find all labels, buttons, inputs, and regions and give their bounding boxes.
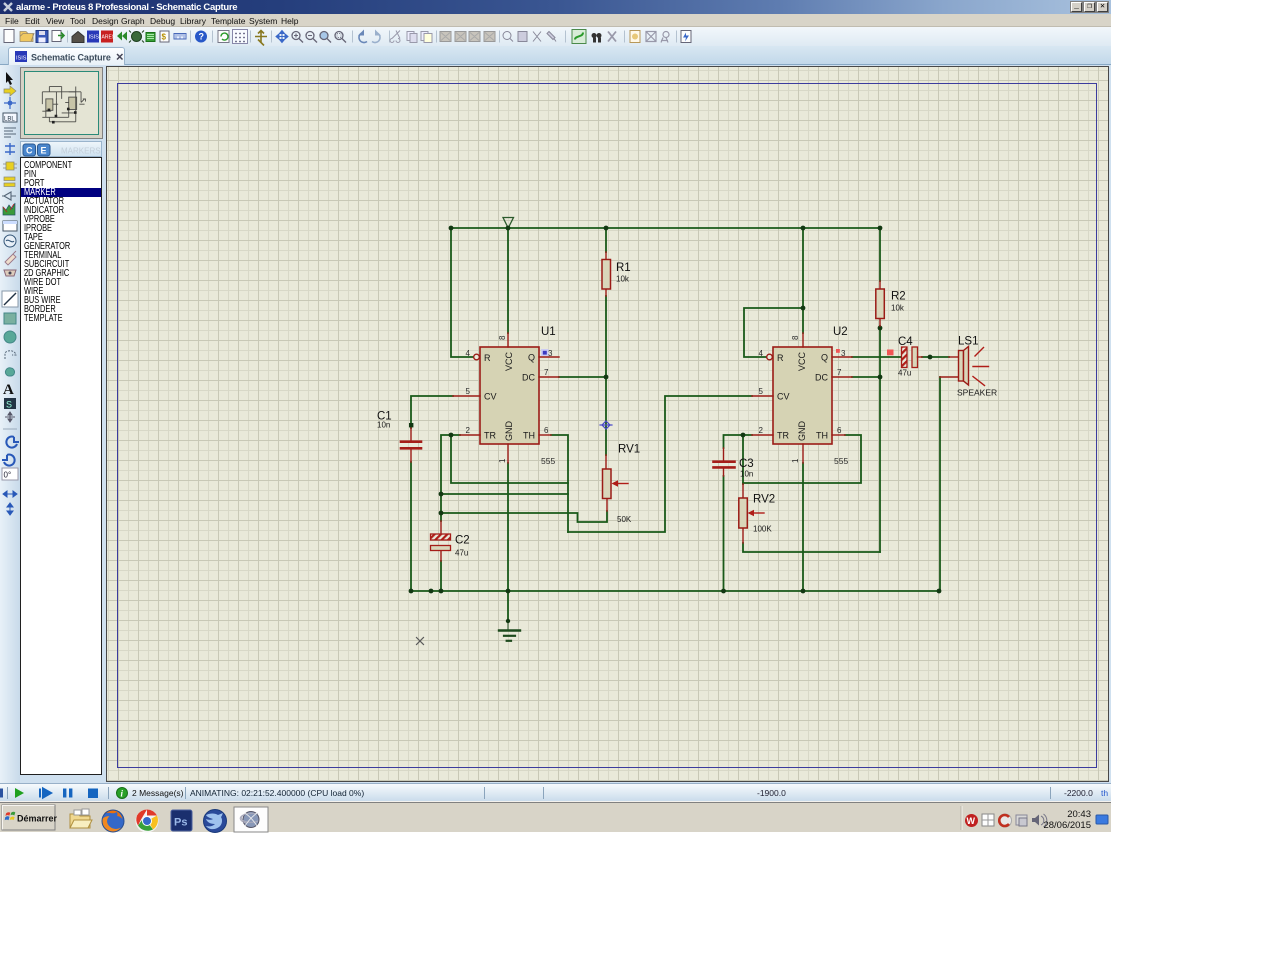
node VCC rail junctions (449, 226, 883, 231)
svg-text:DC: DC (815, 373, 828, 383)
wire U2 TH pin6 loop to RV2 top (743, 435, 861, 483)
svg-text:Q: Q (528, 353, 535, 363)
wire rail to U1 pin4 R (451, 228, 473, 357)
node VCC2 (801, 306, 806, 311)
svg-text:TR: TR (484, 431, 496, 441)
potentiometer RV2 (739, 484, 775, 543)
wire LS1 return to ground rail (939, 377, 941, 591)
svg-text:TH: TH (523, 431, 535, 441)
svg-text:C3: C3 (739, 458, 754, 470)
op-amp U2 (555 timer) (752, 326, 894, 466)
wire U1 DC pin7 to node DC1 (559, 376, 606, 378)
svg-text:R1: R1 (616, 262, 631, 274)
marker logic-state red square pin3 U2 (836, 349, 840, 353)
svg-text:28/06/2015: 28/06/2015 (1043, 820, 1091, 831)
svg-text:10k: 10k (616, 275, 630, 284)
capacitor C2 (polarized) (431, 521, 470, 561)
node DC1 (604, 375, 609, 380)
svg-text:CV: CV (777, 392, 790, 402)
capacitor C1 (377, 411, 421, 463)
svg-text:1: 1 (791, 458, 800, 463)
svg-text:6: 6 (837, 426, 842, 435)
marker logic-state red square wire Q2 (887, 350, 894, 356)
svg-text:2: 2 (759, 426, 764, 435)
svg-text:R: R (777, 353, 784, 363)
svg-text:8: 8 (498, 335, 507, 340)
node TR2 (741, 433, 746, 438)
sheet border (118, 84, 1097, 768)
wire U1 TR pin2 left and down to C2 (441, 435, 460, 521)
capacitor C3 (714, 448, 754, 479)
svg-text:100K: 100K (753, 525, 772, 534)
marker cross (417, 638, 424, 645)
svg-text:20:43: 20:43 (1067, 809, 1091, 820)
wire C2 bottom to ground rail (440, 561, 442, 591)
wire node DC1 down to RV1 (605, 377, 607, 455)
svg-text:TR: TR (777, 431, 789, 441)
wire C4 to LS1 (922, 356, 949, 358)
wire R1 bottom to node DC1 (605, 296, 607, 377)
svg-text:7: 7 (837, 368, 842, 377)
node R2 bottom (878, 326, 883, 331)
resistor R2 (876, 281, 906, 326)
wire rail to U2 VCC and pin4 R (802, 228, 804, 333)
power terminal (503, 218, 514, 229)
svg-text:RV2: RV2 (753, 494, 775, 506)
svg-text:GND: GND (797, 421, 807, 442)
svg-text:GND: GND (504, 421, 514, 442)
node C1 top (409, 423, 413, 427)
svg-text:2 Message(s): 2 Message(s) (132, 788, 184, 798)
svg-text:3: 3 (548, 349, 553, 358)
svg-text:W: W (967, 816, 976, 826)
wire U2 DC pin7 to node DC2 (852, 376, 880, 378)
wire ground rail (411, 590, 939, 592)
svg-text:10n: 10n (740, 470, 753, 479)
svg-text:47u: 47u (898, 369, 911, 378)
wire C3 bottom to ground rail (723, 476, 725, 591)
svg-text:th: th (1101, 788, 1108, 798)
wire U2 GND pin1 to ground rail (802, 463, 804, 591)
wire power terminal to U1 VCC (507, 229, 509, 333)
svg-text:ANIMATING: 02:21:52.400000 (CP: ANIMATING: 02:21:52.400000 (CPU load 0%) (190, 788, 364, 798)
node C (439, 511, 444, 516)
quick launch icons (70, 809, 92, 828)
node DC2 (878, 375, 883, 380)
wire VCC rail (451, 227, 880, 229)
svg-text:-2200.0: -2200.0 (1064, 788, 1093, 798)
wire node C to RV1 bottom (441, 511, 607, 522)
svg-text:R2: R2 (891, 291, 906, 303)
wire U2 TR pin2 to C3 (724, 435, 753, 448)
wire ground rail to ground symbol (507, 591, 509, 620)
wire R2 bottom down to RV2 bottom node (879, 326, 881, 552)
svg-text:1: 1 (498, 458, 507, 463)
node B (439, 492, 444, 497)
speaker LS1 (940, 336, 997, 398)
svg-text:Q: Q (821, 353, 828, 363)
capacitor C4 (polarized) (898, 336, 922, 378)
svg-text:Ps: Ps (174, 817, 187, 829)
svg-text:8: 8 (791, 335, 800, 340)
wire node TR2 down to RV2 top (742, 435, 744, 484)
svg-text:TH: TH (816, 431, 828, 441)
svg-text:10n: 10n (377, 421, 390, 430)
wire U1 TH pin6 down (551, 435, 568, 532)
potentiometer RV1 (603, 444, 641, 525)
marker logic-state blue square pin3 U1 (541, 349, 549, 356)
Start button (2, 805, 55, 830)
wire node B across (441, 493, 568, 495)
svg-text:10k: 10k (891, 304, 905, 313)
svg-text:C4: C4 (898, 336, 913, 348)
node ground stem (506, 619, 510, 623)
svg-text:555: 555 (541, 456, 555, 466)
marker origin blue diamond (600, 421, 612, 429)
wire C1 bottom to ground rail (410, 462, 412, 591)
node TR1 (449, 433, 454, 438)
wire TR1 loop down (451, 435, 568, 483)
wire U1 GND pin1 to ground rail (507, 463, 509, 591)
svg-text:-1900.0: -1900.0 (757, 788, 786, 798)
svg-text:U2: U2 (833, 326, 848, 338)
svg-text:R: R (484, 353, 491, 363)
wire U2 Q pin3 to C4 (852, 356, 902, 358)
svg-text:DC: DC (522, 373, 535, 383)
wire U1 TH node to U2 CV pin5 (568, 396, 752, 532)
svg-text:50K: 50K (617, 515, 632, 524)
wire U1 CV pin5 to C1 (411, 396, 453, 428)
svg-text:3: 3 (841, 349, 846, 358)
svg-text:VCC: VCC (504, 351, 514, 371)
svg-text:LS1: LS1 (958, 336, 978, 348)
node C4-LS1 (928, 355, 933, 360)
ground symbol (499, 621, 520, 641)
wire rail to R2 top (879, 228, 881, 281)
svg-text:U1: U1 (541, 326, 556, 338)
svg-text:4: 4 (759, 349, 764, 358)
svg-text:5: 5 (759, 387, 764, 396)
svg-text:Démarrer: Démarrer (17, 814, 58, 824)
svg-text:C2: C2 (455, 535, 470, 547)
svg-text:CV: CV (484, 392, 497, 402)
svg-text:VCC: VCC (797, 351, 807, 371)
svg-text:47u: 47u (455, 549, 468, 558)
svg-text:2: 2 (466, 426, 471, 435)
svg-text:555: 555 (834, 456, 848, 466)
wire rail to R1 top (605, 228, 607, 252)
system tray (960, 806, 962, 830)
svg-text:7: 7 (544, 368, 549, 377)
wire RV2 bottom to node DC2 vertical (743, 543, 880, 552)
svg-text:6: 6 (544, 426, 549, 435)
op-amp U1 (555 timer) (453, 326, 559, 466)
svg-text:4: 4 (466, 349, 471, 358)
node ground rail junctions (409, 589, 942, 594)
svg-text:5: 5 (466, 387, 471, 396)
svg-text:RV1: RV1 (618, 444, 640, 456)
resistor R1 (602, 252, 631, 296)
svg-text:SPEAKER: SPEAKER (957, 388, 997, 398)
